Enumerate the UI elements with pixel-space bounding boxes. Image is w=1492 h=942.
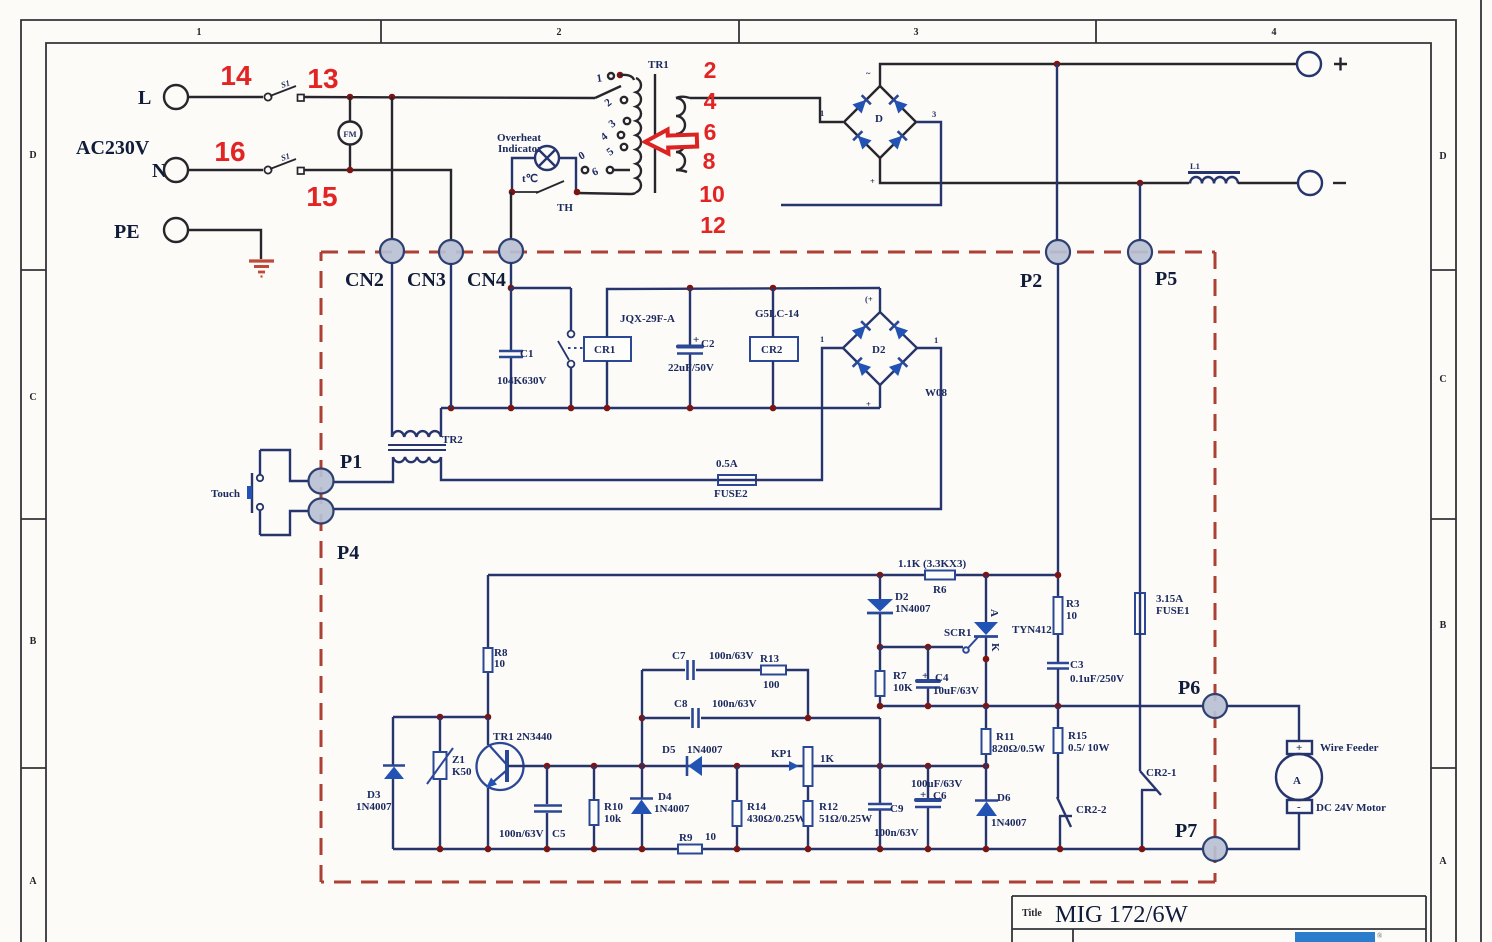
node rail R10: [591, 846, 598, 853]
svg-text:FUSE1: FUSE1: [1156, 605, 1190, 617]
node rail R3: [1055, 703, 1062, 710]
node rail C1: [508, 405, 515, 412]
TR1 pin 6 contact: [607, 167, 613, 173]
wire TR2 primary right to rail: [440, 408, 442, 437]
svg-text:PE: PE: [114, 221, 140, 243]
resistor R15: [1054, 728, 1063, 753]
svg-text:820Ω/0.5W: 820Ω/0.5W: [992, 743, 1045, 755]
node FM bottom on N wire: [347, 167, 354, 174]
svg-text:CR2: CR2: [761, 344, 783, 356]
base bus wire: [508, 765, 986, 767]
wire CN3 drop to rail: [450, 263, 452, 408]
resistor R13: [761, 666, 786, 675]
top margin column dividers: [381, 20, 1096, 43]
torch trigger switch Touch: [247, 450, 263, 535]
svg-text:R6: R6: [933, 584, 947, 596]
wire CR1 coil top: [607, 288, 880, 337]
wire TR1 pin6 to winding: [613, 169, 630, 171]
node TR1 pin1: [617, 72, 624, 79]
svg-text:t℃: t℃: [522, 173, 538, 185]
node base D6: [983, 763, 990, 770]
node TH right: [574, 189, 581, 196]
svg-text:4: 4: [1272, 27, 1277, 38]
diode D2b leads: [879, 575, 881, 647]
svg-text:G5LC-14: G5LC-14: [755, 308, 800, 320]
node base R14: [734, 763, 741, 770]
svg-text:D4: D4: [658, 791, 672, 803]
svg-text:0.5/ 10W: 0.5/ 10W: [1068, 742, 1110, 754]
svg-text:P1: P1: [340, 451, 362, 473]
svg-text:10uF/63V: 10uF/63V: [933, 685, 979, 697]
wire P6 to motor: [1227, 706, 1299, 741]
svg-text:C: C: [1439, 374, 1446, 385]
C7 C8 junction riser: [641, 670, 643, 766]
svg-text:R3: R3: [1066, 598, 1080, 610]
node R8 bottom: [485, 714, 492, 721]
capacitor C6 electrolytic: [915, 800, 941, 807]
bridge D diode bottom-right: [888, 131, 906, 149]
node rail C5: [544, 846, 551, 853]
bridge D2 diode bottom-left: [853, 358, 871, 376]
svg-text:MIG 172/6W: MIG 172/6W: [1055, 901, 1189, 928]
capacitor C7: [688, 660, 694, 680]
potentiometer KP1: [804, 747, 813, 786]
svg-text:12: 12: [700, 212, 726, 238]
label minus: [1333, 182, 1346, 184]
TR1 secondary winding: [676, 98, 685, 170]
node rail C6: [925, 846, 932, 853]
node rail SCR: [983, 703, 990, 710]
svg-text:2: 2: [557, 27, 562, 38]
output terminal minus: [1298, 171, 1322, 195]
svg-text:D: D: [1439, 151, 1446, 162]
control supply top wire: [488, 574, 1058, 576]
wire FUSE2 to bridge D2 left: [756, 348, 843, 480]
resistor R8: [484, 648, 493, 672]
connector P2: [1046, 240, 1070, 264]
node P5 riser tap: [1137, 180, 1144, 187]
svg-text:B: B: [1440, 620, 1447, 631]
svg-text:+: +: [1296, 742, 1302, 754]
node rail CR2-2: [1057, 846, 1064, 853]
svg-text:1: 1: [820, 334, 824, 344]
svg-text:C6: C6: [933, 790, 947, 802]
TR1 core: [654, 74, 656, 193]
capacitor C7 line: [642, 669, 761, 671]
thermal switch TH: [512, 181, 564, 193]
node rail R12: [805, 846, 812, 853]
wire lamp right lead: [559, 158, 576, 192]
output terminal plus: [1297, 52, 1321, 76]
transformer TR2 secondary: [393, 457, 441, 462]
wire TR1 pin1 to winding: [620, 75, 634, 80]
bridge D diode bottom-left: [853, 131, 871, 149]
TR1 primary winding: [636, 78, 641, 192]
wire switch S1a to TR1 selector: [304, 97, 595, 98]
svg-text:AC230V: AC230V: [76, 137, 150, 159]
capacitor C8: [693, 708, 699, 728]
svg-text:13: 13: [307, 63, 338, 94]
terminal L: [164, 85, 188, 109]
node FM top on L wire: [347, 94, 354, 101]
svg-text:8: 8: [703, 148, 716, 174]
resistor R8 leads: [487, 575, 489, 717]
svg-text:1: 1: [820, 108, 824, 118]
svg-text:100n/63V: 100n/63V: [499, 828, 544, 840]
node rail R7: [877, 703, 884, 710]
svg-text:100: 100: [763, 679, 780, 691]
resistor R6: [925, 571, 955, 580]
svg-text:K50: K50: [452, 766, 472, 778]
wire lamp left lead: [512, 158, 535, 192]
relay bottom rail: [441, 407, 880, 409]
bridge D diode top-left: [852, 95, 870, 113]
svg-text:14: 14: [220, 60, 252, 91]
svg-text:P2: P2: [1020, 270, 1042, 292]
svg-text:430Ω/0.25W: 430Ω/0.25W: [747, 813, 806, 825]
svg-text:2: 2: [704, 57, 717, 83]
motor plus terminal box: [1287, 741, 1312, 754]
resistor R3: [1054, 597, 1063, 634]
wire CN2 riser: [391, 97, 393, 240]
svg-text:(+: (+: [865, 294, 873, 304]
svg-text:D2: D2: [895, 591, 909, 603]
TR1 tap 3 contact: [624, 118, 630, 124]
node rail CR1 contact: [568, 405, 575, 412]
svg-text:D5: D5: [662, 744, 676, 756]
wire motor to P7: [1227, 813, 1299, 849]
node gate C4: [925, 644, 932, 651]
wire torch to P4: [260, 511, 308, 535]
capacitor C3 lead: [1057, 669, 1059, 706]
node C8 line left: [639, 715, 646, 722]
svg-text:A: A: [1439, 856, 1447, 867]
svg-text:100uF/63V: 100uF/63V: [911, 778, 962, 790]
svg-text:100n/63V: 100n/63V: [874, 827, 919, 839]
svg-text:C5: C5: [552, 828, 566, 840]
svg-text:CN4: CN4: [467, 269, 506, 291]
wire FM top lead: [349, 97, 351, 122]
wire N terminal to switch S1b: [188, 169, 263, 171]
diode D4 leads: [641, 766, 643, 849]
bridge D2 diode bottom-right: [889, 358, 907, 376]
svg-text:R13: R13: [760, 653, 779, 665]
label plus: [1334, 58, 1347, 71]
diode D3: [383, 766, 405, 780]
resistor R14: [733, 801, 742, 826]
svg-text:1N4007: 1N4007: [991, 817, 1027, 829]
svg-text:P5: P5: [1155, 268, 1177, 290]
svg-text:100n/63V: 100n/63V: [709, 650, 754, 662]
svg-text:+: +: [922, 670, 928, 682]
capacitor C2 electrolytic: [677, 347, 703, 354]
fan motor FM: [339, 122, 362, 145]
svg-text:A: A: [1293, 775, 1301, 787]
svg-text:6: 6: [704, 119, 717, 145]
control PCB red dashed boundary: [321, 252, 1215, 882]
node rail C2: [687, 405, 694, 412]
node base C5: [544, 763, 551, 770]
fuse FUSE2: [718, 475, 756, 485]
svg-text:D2: D2: [872, 344, 886, 356]
capacitor C9: [868, 804, 892, 810]
resistor R10 leads: [593, 766, 595, 849]
TR1 selector open contact circle: [582, 167, 588, 173]
wire L terminal to switch S1a: [188, 96, 263, 98]
svg-text:DC 24V Motor: DC 24V Motor: [1316, 802, 1386, 814]
svg-text:KP1: KP1: [771, 748, 792, 760]
transformer TR2 primary: [392, 431, 441, 437]
node P2 riser tap: [1054, 61, 1061, 68]
svg-text:Touch: Touch: [211, 488, 240, 500]
wire TR1 winding bottom to TH: [577, 192, 635, 194]
capacitor C4 electrolytic: [916, 681, 940, 688]
varistor Z1 leads: [439, 717, 441, 849]
svg-text:51Ω/0.25W: 51Ω/0.25W: [819, 813, 872, 825]
capacitor C8 line: [642, 717, 880, 719]
svg-text:A: A: [988, 609, 1000, 617]
svg-text:FM: FM: [343, 129, 356, 139]
node gate line left: [877, 644, 884, 651]
TR1 tap 2 contact: [621, 97, 627, 103]
wire CN2 drop to TR2: [391, 263, 393, 437]
node rail D6: [983, 846, 990, 853]
svg-text:Title: Title: [1022, 908, 1042, 919]
svg-text:B: B: [30, 636, 37, 647]
node rail TR1e: [485, 846, 492, 853]
node SCR cathode: [983, 656, 990, 663]
TR1 tap 5 contact: [621, 144, 627, 150]
svg-text:15: 15: [306, 181, 337, 212]
wire bridge D plus output: [880, 64, 1296, 86]
svg-text:3.15A: 3.15A: [1156, 593, 1183, 605]
svg-text:K: K: [989, 643, 1001, 652]
ground PE: [249, 261, 274, 277]
resistor R9: [678, 845, 702, 854]
resistor R3 leads: [1057, 597, 1059, 662]
node Z1 top: [437, 714, 444, 721]
node rail CN3: [448, 405, 455, 412]
svg-text:22uF/50V: 22uF/50V: [668, 362, 714, 374]
node top wire SCR: [983, 572, 990, 579]
wire bridge D2 right to P4 line: [333, 348, 941, 509]
title block frame: [1012, 896, 1426, 942]
left margin row dividers: [21, 270, 46, 768]
connector CN4: [499, 239, 523, 263]
resistor R10: [590, 800, 599, 825]
node rail C9: [877, 846, 884, 853]
wire FM bottom lead: [349, 145, 351, 171]
capacitor C5 leads: [546, 766, 548, 849]
wire C8 line down to base bus: [879, 718, 881, 766]
resistor R7 leads: [879, 647, 881, 706]
resistor R14 leads: [736, 766, 738, 849]
wire TR1 secondary top lead: [676, 97, 690, 98]
capacitor C2 leads: [689, 288, 691, 408]
emitter bottom rail: [393, 848, 1203, 850]
node base C6: [925, 763, 932, 770]
transistor TR1 2N3440: [477, 743, 524, 790]
svg-text:TR1 2N3440: TR1 2N3440: [493, 731, 552, 743]
resistor R7: [876, 671, 885, 696]
diode D6: [975, 801, 998, 817]
svg-text:R15: R15: [1068, 730, 1087, 742]
capacitor C6 leads: [927, 766, 929, 849]
gate wire: [880, 646, 963, 648]
switch S1a (line L): [264, 86, 304, 101]
motor minus terminal box: [1287, 800, 1312, 813]
svg-text:3: 3: [914, 27, 919, 38]
capacitor C9 leads: [879, 766, 881, 849]
svg-text:R12: R12: [819, 801, 838, 813]
svg-text:10: 10: [494, 658, 506, 670]
svg-text:+: +: [870, 176, 875, 186]
transistor TR1 leads: [487, 717, 489, 849]
wire torch to P1: [260, 450, 308, 481]
svg-text:0.5A: 0.5A: [716, 458, 738, 470]
svg-text:10k: 10k: [604, 813, 622, 825]
svg-text:JQX-29F-A: JQX-29F-A: [620, 313, 675, 325]
svg-text:C4: C4: [935, 672, 949, 684]
wire CR2 coil bottom: [772, 361, 774, 408]
switch S1b (line N): [264, 159, 304, 174]
svg-text:D6: D6: [997, 792, 1011, 804]
node rail CR2: [770, 405, 777, 412]
wire FUSE1 to CR2-1: [1139, 634, 1141, 771]
diode D5: [687, 756, 702, 776]
svg-text:R11: R11: [996, 731, 1014, 743]
svg-text:R7: R7: [893, 670, 907, 682]
node TH left: [509, 189, 516, 196]
wire R13 to KP1 riser: [786, 670, 808, 718]
svg-text:L1: L1: [1190, 161, 1200, 171]
diode D4: [630, 799, 653, 815]
svg-text:R10: R10: [604, 801, 623, 813]
svg-text:0.1uF/250V: 0.1uF/250V: [1070, 673, 1124, 685]
resistor R12: [804, 801, 813, 826]
svg-text:3: 3: [932, 109, 936, 119]
resistor R11: [982, 729, 991, 754]
svg-text:104K630V: 104K630V: [497, 375, 547, 387]
SCR gate lead: [968, 636, 979, 648]
CR1 contact linkage dots: [568, 347, 584, 349]
TR1 tap 4 contact: [618, 132, 624, 138]
node rail D4: [639, 846, 646, 853]
svg-text:1: 1: [197, 27, 202, 38]
annotation arrow: [645, 129, 698, 155]
svg-text:CR2-1: CR2-1: [1146, 767, 1177, 779]
anode rail wire: [880, 705, 1203, 707]
node top rail CN4: [508, 285, 515, 292]
svg-text:4: 4: [704, 88, 717, 114]
svg-text:+: +: [920, 789, 926, 801]
bridge D2 diode top-left: [852, 321, 870, 339]
wire L1 to minus terminal: [1238, 182, 1298, 184]
svg-text:-: -: [1297, 801, 1301, 813]
svg-text:D: D: [29, 150, 36, 161]
wire PE terminal to ground: [188, 230, 261, 259]
node rail C4: [925, 703, 932, 710]
diode D3 leads: [392, 717, 394, 849]
logo blue box: [1295, 932, 1375, 942]
svg-text:D: D: [875, 113, 883, 125]
connector P4: [309, 499, 334, 524]
wire P5 riser above: [1139, 183, 1141, 240]
wire top rail to bridge D2: [879, 288, 881, 312]
connector CN2: [380, 239, 404, 263]
svg-text:SCR1: SCR1: [944, 627, 972, 639]
diode D2 1N4007: [867, 599, 893, 613]
relay coil CR2 box: [750, 337, 798, 361]
svg-text:A: A: [29, 876, 37, 887]
wire feeder motor body: [1276, 754, 1322, 800]
svg-text:C9: C9: [890, 803, 904, 815]
contact CR2-2: [1057, 797, 1072, 849]
varistor Z1: [427, 748, 453, 784]
bridge D diode top-right: [889, 95, 907, 113]
wire P5 drop to FUSE1: [1139, 264, 1141, 593]
diode D6 leads: [985, 766, 987, 849]
svg-text:R14: R14: [747, 801, 766, 813]
right margin row dividers: [1431, 270, 1456, 768]
node top wire P2: [1055, 572, 1062, 579]
wire CN4 to relay top rail: [510, 263, 512, 288]
inductor L1 core bar: [1188, 171, 1240, 174]
TR1 tap selector lever: [595, 86, 621, 98]
capacitor C3: [1047, 663, 1069, 669]
node top wire D2: [877, 572, 884, 579]
svg-text:1N4007: 1N4007: [687, 744, 723, 756]
wire TR1 secondary bottom lead: [676, 170, 687, 172]
svg-text:W08: W08: [925, 387, 948, 399]
node rail Z1: [437, 846, 444, 853]
wire P2 riser above: [1056, 64, 1058, 240]
svg-text:1.1K (3.3KX3): 1.1K (3.3KX3): [898, 558, 966, 570]
svg-text:Z1: Z1: [452, 754, 465, 766]
node C8 KP1: [805, 715, 812, 722]
SCR gate contact: [963, 647, 969, 653]
wire TR1 secondary to bridge D left: [690, 98, 843, 122]
relay coil CR1 box: [584, 337, 631, 361]
resistor R11 leads: [985, 706, 987, 766]
relay CR1 contact: [558, 288, 574, 408]
svg-text:FUSE2: FUSE2: [714, 488, 748, 500]
svg-text:P4: P4: [337, 542, 359, 564]
bridge rectifier D frame: [844, 86, 916, 158]
svg-text:P6: P6: [1178, 677, 1200, 699]
capacitor C1 leads: [510, 288, 512, 408]
svg-text:P7: P7: [1175, 820, 1197, 842]
capacitor C4 leads: [927, 647, 929, 706]
svg-text:Wire Feeder: Wire Feeder: [1320, 742, 1379, 754]
capacitor C5: [534, 806, 562, 812]
svg-text:CR1: CR1: [594, 344, 615, 356]
svg-text:C8: C8: [674, 698, 688, 710]
wire switch S1b to CN3 riser: [304, 170, 451, 240]
KP1 wiper arrow: [789, 761, 799, 771]
svg-text:C7: C7: [672, 650, 686, 662]
svg-text:~: ~: [866, 68, 871, 78]
svg-text:C2: C2: [701, 338, 715, 350]
svg-text:TYN412: TYN412: [1012, 624, 1052, 636]
node rail R14: [734, 846, 741, 853]
node CR2 top: [770, 285, 777, 292]
svg-text:16: 16: [214, 136, 245, 167]
overheat indicator lamp: [535, 146, 559, 170]
node CN2 riser on L wire: [389, 94, 396, 101]
svg-text:®: ®: [1377, 932, 1383, 940]
wire bridge D right AC return: [781, 122, 941, 205]
